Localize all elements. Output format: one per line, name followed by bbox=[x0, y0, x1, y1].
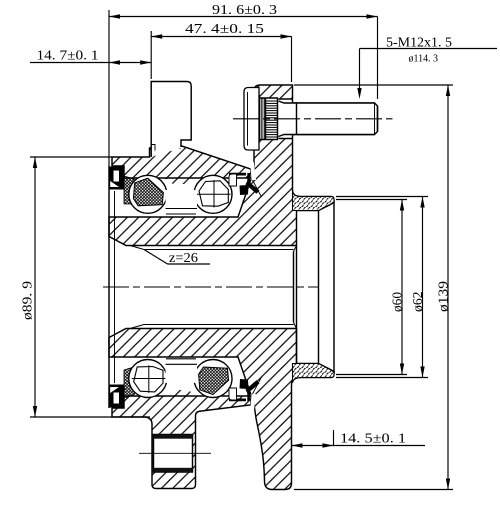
ball upper-left (sectioned, crosshatched) bbox=[129, 175, 167, 213]
spline bore lines upper bbox=[109, 237, 294, 250]
cage bars upper row bbox=[166, 190, 198, 214]
dimension 47.4±0.15 bbox=[151, 22, 291, 82]
dimension ø60 bbox=[336, 200, 407, 375]
wheel stud bbox=[244, 88, 259, 151]
stud centerline bbox=[233, 118, 393, 120]
sealing gap lower-right (white wedge) bbox=[250, 394, 256, 412]
hub / flange / barrel lower section (hatched) bbox=[109, 329, 334, 490]
inner ring bore chamfer edge line bbox=[114, 191, 116, 383]
dimension ø62 bbox=[336, 197, 428, 378]
stud knurl bbox=[260, 95, 279, 143]
spigot recess floor bbox=[318, 211, 320, 363]
bearing outer ring mounting boss (upper, unsectioned) bbox=[151, 82, 191, 158]
seal elastomer upper-left (crosshatched) bbox=[124, 176, 138, 204]
raceway notch hatch wedges (upper) bbox=[124, 178, 131, 186]
svg-text:5-M12x1. 5: 5-M12x1. 5 bbox=[386, 35, 452, 50]
spigot wall fine hatch upper bbox=[293, 191, 335, 211]
spigot wall fine hatch lower bbox=[293, 364, 335, 384]
seal lower-left (black) bbox=[109, 385, 124, 408]
svg-text:47. 4±0. 15: 47. 4±0. 15 bbox=[185, 22, 264, 37]
svg-text:91. 6±0. 3: 91. 6±0. 3 bbox=[212, 3, 277, 18]
svg-text:ø89. 9: ø89. 9 bbox=[21, 281, 36, 320]
knuckle bolt hole serrations (lower ear) bbox=[154, 435, 193, 439]
inner ring back face line bbox=[108, 166, 110, 408]
outer ring lower section with mounting ear (hatched) bbox=[112, 396, 251, 489]
dimension 14.7±0.1 bbox=[30, 48, 151, 64]
seal upper-left (black) bbox=[109, 167, 124, 190]
knuckle bolt hole centerline bbox=[139, 452, 211, 454]
dimension 91.6±0.3 bbox=[109, 3, 378, 166]
thread callout 5-M12x1.5 bbox=[357, 35, 497, 99]
ball lower-right (sectioned, crosshatched) bbox=[194, 360, 232, 398]
svg-text:ø139: ø139 bbox=[437, 281, 452, 312]
seal elastomer lower-left (crosshatched) bbox=[124, 367, 138, 398]
dimension ø139 bbox=[294, 85, 453, 490]
svg-text:14. 7±0. 1: 14. 7±0. 1 bbox=[37, 48, 99, 63]
raceway notch hatch wedges (lower) bbox=[124, 389, 131, 397]
svg-text:ø60: ø60 bbox=[391, 292, 406, 312]
svg-text:z=26: z=26 bbox=[169, 251, 198, 266]
ball upper-right (with center cross) bbox=[194, 175, 232, 213]
svg-text:14. 5±0. 1: 14. 5±0. 1 bbox=[340, 431, 406, 446]
cage bars lower row bbox=[166, 359, 198, 383]
seal lower-right (black) bbox=[229, 379, 260, 401]
spigot end face bbox=[333, 202, 335, 373]
outer ring upper section (hatched) bbox=[112, 145, 251, 178]
seal upper-right (black) bbox=[229, 173, 260, 195]
bore end face bbox=[294, 246, 297, 364]
svg-text:ø114. 3: ø114. 3 bbox=[409, 52, 439, 64]
spline count callout z=26 bbox=[144, 250, 210, 267]
ball lower-left (with center cross) bbox=[129, 360, 167, 398]
main centerline bbox=[103, 286, 318, 288]
dimension ø89.9 bbox=[21, 157, 151, 417]
boss bottom-left step bbox=[151, 145, 155, 151]
spline bore lines lower bbox=[109, 325, 294, 338]
raceway shoulder lines (upper) bbox=[124, 177, 251, 179]
raceway shoulder lines (lower) bbox=[124, 395, 251, 397]
dimension 14.5±0.1 bbox=[292, 430, 426, 448]
sealing gap upper-right (white wedge) bbox=[250, 162, 256, 180]
stud shoulder and thread bbox=[279, 101, 378, 137]
hub / flange / barrel upper section (hatched) bbox=[109, 85, 334, 246]
svg-text:ø62: ø62 bbox=[411, 292, 426, 313]
